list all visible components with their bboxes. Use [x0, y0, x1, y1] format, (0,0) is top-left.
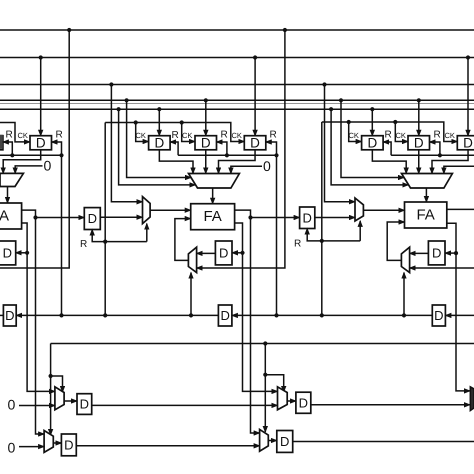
node junction R branch	[320, 239, 324, 243]
svg-text:R: R	[55, 130, 62, 141]
wire tap B3 to mux M2a input	[111, 85, 142, 202]
mux M3	[402, 174, 453, 189]
wire D2f output to feedback mux U2	[197, 252, 216, 254]
wire tap B1 to feedback line slice1	[0, 30, 69, 268]
wire CK drop to D32	[395, 122, 408, 142]
flip-flop D33 partial at right edge	[457, 135, 474, 150]
node CK rail junction	[393, 120, 397, 124]
mux M5a	[44, 431, 53, 453]
wire FA1 sum output to D1a	[22, 210, 36, 217]
wire mux M3 output to FA3	[425, 188, 427, 202]
wire D2b output to mux M5b	[76, 445, 259, 447]
wire select line segment left	[0, 314, 3, 316]
node junction on B6	[117, 107, 121, 111]
node junction on B2	[466, 55, 470, 59]
wire 0 to mux M4a	[19, 405, 55, 407]
wire 0 to mux M2	[231, 166, 262, 173]
wire tap B4 to mux M2 left input	[127, 100, 191, 177]
wire R input D22	[217, 142, 227, 155]
node junction	[263, 341, 267, 345]
full adder FA1 partial at left edge	[0, 203, 22, 229]
flip-flop D32	[408, 135, 430, 150]
wire R input D23	[266, 142, 277, 155]
wire CK drop to D21	[136, 123, 149, 142]
feedback mux U2 slice2	[188, 247, 196, 272]
node junction on B2	[39, 55, 43, 59]
wire R input D12	[3, 142, 12, 155]
wire data tap B2 to DFF D33	[467, 58, 469, 136]
wire branch to mux M4a top	[51, 376, 63, 392]
node junction R branch	[103, 240, 107, 244]
wire mux M3a output to FA3	[363, 209, 404, 211]
wire select line into D3r	[445, 314, 474, 316]
node junction on B6	[370, 107, 374, 111]
wire CK rail slice1	[0, 123, 30, 142]
svg-text:D: D	[432, 245, 441, 260]
node R rail junction	[225, 153, 229, 157]
node junction	[263, 373, 267, 377]
svg-text:D: D	[154, 135, 164, 150]
wire FA1 carry vertical to mux M4a	[27, 253, 55, 392]
wire data tap B2 to DFF D13	[40, 58, 42, 136]
node junction FA2 sum	[248, 215, 252, 219]
svg-text:CK: CK	[231, 131, 241, 140]
wire control drop group B	[264, 344, 266, 433]
svg-text:D: D	[280, 434, 289, 449]
node junction	[274, 313, 278, 317]
svg-text:R: R	[294, 239, 301, 250]
wire tap B6 to mux M3 left input 2	[331, 109, 408, 185]
flip-flop D12 partial at left edge	[0, 135, 3, 150]
node R rail junction	[59, 153, 63, 157]
wire 0 to mux M1	[15, 166, 42, 174]
wire 0 line to mux M3	[444, 166, 474, 173]
svg-text:D: D	[36, 135, 46, 150]
wire CK vertical slice2 to reset line	[104, 123, 106, 316]
wire mux M4a output to D1b	[64, 400, 77, 402]
wire bus line B5	[0, 103, 474, 105]
wire D31 output to mux M3	[372, 150, 406, 174]
wire FA2 carry output	[235, 223, 243, 253]
svg-text:0: 0	[263, 158, 271, 174]
wire CK drop to D31	[349, 122, 362, 142]
flip-flop D2c	[277, 431, 293, 453]
node junction on B3	[322, 82, 326, 86]
svg-text:R: R	[220, 130, 227, 141]
wire D2c output exits right	[293, 441, 474, 443]
node junction on B4	[417, 98, 421, 102]
wire mux M1 output to FA1	[7, 187, 9, 204]
wire feedback into FA3 lower input	[387, 222, 404, 260]
wire D13 output to mux M1	[3, 150, 41, 174]
mux M5b	[260, 429, 269, 451]
svg-text:CK: CK	[395, 131, 405, 140]
flip-flop D2b	[61, 434, 76, 456]
mux M1 partial at left edge	[0, 173, 23, 186]
wire D21 output to mux M2	[159, 150, 193, 174]
svg-text:D: D	[201, 135, 211, 150]
wire data tap B4 to DFF D32	[418, 100, 420, 135]
node junction	[59, 313, 63, 317]
node R rail junction	[274, 153, 278, 157]
wire tap B1 to feedback-mux U2 input	[197, 30, 285, 268]
wire FA3 carry vertical to mux M4c	[456, 253, 470, 391]
svg-text:D: D	[219, 245, 228, 260]
wire data tap B4 to DFF D22	[205, 100, 207, 135]
flip-flop D22	[195, 135, 217, 150]
node junction on B4	[125, 98, 129, 102]
svg-text:FA: FA	[203, 208, 221, 225]
mux M3a left of FA3	[355, 198, 363, 221]
flip-flop D1f feedback slice1 partial	[0, 241, 16, 265]
node R rail junction	[438, 153, 442, 157]
wire FA2 sum output to D2a	[235, 210, 251, 217]
wire CK vertical slice3 to reset line	[321, 122, 323, 315]
flip-flop D21	[149, 135, 171, 150]
node junction on B6	[157, 107, 161, 111]
wire D1b output to mux M4b	[92, 404, 278, 406]
flip-flop D1b	[77, 394, 92, 415]
wire mux M5b output to D2c	[268, 440, 277, 442]
svg-text:D: D	[299, 395, 308, 410]
svg-text:D: D	[220, 308, 229, 323]
wire R input of D1a	[92, 230, 105, 242]
mux M2a left of FA2	[143, 197, 151, 224]
wire D32 output to mux M3	[418, 150, 420, 174]
wire R input D13	[52, 142, 62, 155]
wire FA3 carry to feedback D register	[445, 252, 456, 254]
node junction on B1	[67, 28, 71, 32]
wire tap B4 to mux M3 left input	[341, 100, 404, 177]
wire branch to mux M4b top	[265, 375, 283, 392]
wire bus line B6	[0, 108, 474, 110]
svg-text:D: D	[367, 135, 377, 150]
wire R rail slice3	[391, 154, 474, 156]
wire data tap B6 to DFF D31	[371, 109, 373, 136]
node junction FA3 carry	[454, 251, 458, 255]
svg-text:D: D	[303, 210, 312, 225]
flip-flop D1r row register slice1	[3, 305, 16, 326]
node R rail junction	[10, 153, 14, 157]
svg-text:CK: CK	[444, 131, 454, 140]
svg-text:D: D	[463, 135, 473, 150]
wire feedback into FA2 lower input	[175, 219, 191, 261]
wire D22 output to mux M2	[205, 150, 207, 174]
wire bus line B4	[0, 99, 474, 101]
mux M4a	[55, 387, 64, 410]
wire mux M2a bottom select	[146, 224, 148, 242]
mux M4c partial at right edge	[470, 387, 474, 411]
wire R rail slice1	[0, 154, 62, 156]
wire R vertical slice1 down	[61, 155, 63, 315]
flip-flop D31	[362, 135, 384, 150]
wire CK rail slice3	[322, 122, 458, 142]
svg-text:D: D	[64, 437, 73, 452]
node junction on B1	[283, 28, 287, 32]
wire FA1 sum vertical to mux M5a	[36, 218, 45, 435]
svg-text:0: 0	[43, 158, 51, 174]
node junction select line	[189, 313, 193, 317]
wire control drop group A	[50, 344, 52, 436]
svg-text:R: R	[80, 239, 87, 250]
wire D2a output to mux M3a	[315, 217, 355, 219]
flip-flop D1a inter-slice	[84, 208, 100, 230]
svg-text:CK: CK	[17, 131, 27, 140]
wire D23 output to mux M2	[219, 150, 256, 174]
svg-text:D: D	[5, 308, 14, 323]
wire FA2 sum vertical to mux M5b	[251, 218, 260, 434]
wire FA2 carry to feedback D register	[232, 252, 243, 254]
wire feedback mux U2 bottom select	[190, 273, 192, 316]
wire tap B6 to mux M2 left input 2	[119, 109, 196, 185]
flip-flop D13	[30, 135, 52, 150]
svg-text:D: D	[414, 135, 424, 150]
wire FA1 carry output	[22, 223, 28, 253]
wire feedback mux U3 bottom select	[403, 273, 405, 316]
wire mux M2 output to FA2	[212, 188, 214, 204]
flip-flop D2f feedback slice2	[215, 241, 232, 265]
wire FA2 sum to register D2a	[251, 217, 300, 219]
node junction	[320, 313, 324, 317]
mux M4b	[278, 387, 288, 410]
wire feedback mux U3 input from right	[410, 267, 474, 269]
svg-text:D: D	[250, 135, 260, 150]
svg-text:CK: CK	[135, 131, 145, 140]
svg-text:D: D	[80, 397, 89, 412]
feedback mux U3 slice3	[401, 247, 409, 272]
wire data tap B2 to DFF D23	[254, 58, 256, 136]
wire control line	[51, 343, 474, 345]
wire FA3 sum output exits right	[447, 208, 474, 210]
wire mux M5a output to D2b	[53, 442, 61, 444]
flip-flop D2r row register slice2	[218, 305, 232, 326]
flip-flop D3r row register slice3	[432, 305, 445, 326]
svg-text:CK: CK	[348, 131, 358, 140]
wire tap B3 to mux M3a input	[325, 85, 356, 202]
wire R rail slice2	[178, 154, 276, 156]
node junction	[49, 374, 53, 378]
svg-text:R: R	[5, 130, 12, 141]
node junction FA2 carry	[240, 251, 244, 255]
svg-text:R: R	[384, 130, 391, 141]
node junction	[103, 313, 107, 317]
wire select line into D1r	[16, 314, 218, 316]
wire D33 output to mux M3	[432, 150, 468, 174]
wire D3f output to feedback mux U3	[410, 252, 429, 254]
full adder FA3	[405, 202, 447, 228]
wire data tap B6 to DFF D21	[158, 109, 160, 136]
node junction on B3	[109, 82, 113, 86]
svg-text:R: R	[433, 130, 440, 141]
wire mux M3a bottom select	[359, 221, 361, 241]
wire bus line B2	[0, 57, 474, 59]
svg-text:CK: CK	[182, 131, 192, 140]
node CK rail junction	[134, 120, 138, 124]
node junction on B4	[339, 98, 343, 102]
svg-text:R: R	[171, 130, 178, 141]
flip-flop D1c	[296, 392, 311, 413]
wire R vertical slice2 down	[276, 155, 278, 315]
node CK rail junction	[347, 120, 351, 124]
svg-text:FA: FA	[416, 207, 434, 224]
wire R line to mux M3a select	[322, 240, 360, 242]
wire bus line B1	[0, 29, 474, 31]
wire CK rail slice2	[105, 123, 244, 142]
wire 0 to mux M5a	[19, 446, 44, 448]
node CK rail junction	[180, 120, 184, 124]
svg-text:0: 0	[7, 440, 15, 456]
full adder FA2	[191, 204, 235, 230]
node junction on B4	[204, 98, 208, 102]
svg-text:D: D	[3, 245, 12, 260]
wire D1a output to mux M2a	[100, 216, 142, 218]
wire R input D32	[430, 142, 440, 155]
svg-text:D: D	[434, 308, 443, 323]
node junction FA1 sum	[33, 215, 37, 219]
node junction FA1 carry	[25, 251, 29, 255]
wire R input of D2a	[307, 229, 322, 241]
wire mux M4b output to D1c	[287, 400, 296, 402]
mux M2	[189, 174, 240, 189]
wire FA1 carry to feedback D register	[16, 252, 27, 254]
wire mux M2a output to FA2	[150, 209, 191, 211]
wire FA2 carry vertical to mux M4b	[243, 253, 278, 392]
wire bus line B3	[0, 84, 474, 86]
wire R line to mux M2a select	[105, 241, 147, 243]
flip-flop D23	[244, 135, 265, 150]
wire select line into D2r	[232, 314, 432, 316]
svg-text:0: 0	[7, 397, 15, 413]
flip-flop D2a inter-slice	[300, 207, 315, 229]
svg-text:FA: FA	[0, 208, 9, 225]
svg-text:R: R	[269, 130, 276, 141]
node junction select line	[402, 313, 406, 317]
flip-flop D3f feedback slice3	[428, 241, 445, 265]
wire FA1 sum to register D1a	[36, 217, 85, 219]
node junction on B6	[329, 107, 333, 111]
wire D1c output to mux M4c	[311, 404, 470, 406]
node junction on B2	[253, 55, 257, 59]
wire R input D31	[383, 142, 391, 155]
wire R input D21	[170, 142, 178, 155]
wire CK drop to D22	[182, 123, 195, 142]
wire FA3 carry output	[447, 223, 456, 253]
svg-text:D: D	[88, 211, 97, 226]
